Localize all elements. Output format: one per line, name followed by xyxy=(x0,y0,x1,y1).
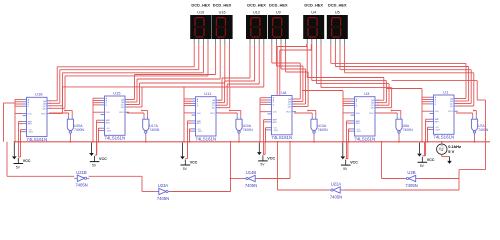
svg-text:7405N: 7405N xyxy=(245,183,257,188)
svg-text:~CLR: ~CLR xyxy=(106,130,112,132)
svg-text:~CLR: ~CLR xyxy=(435,129,441,131)
svg-text:U12: U12 xyxy=(253,11,260,15)
svg-text:7405N: 7405N xyxy=(75,183,87,188)
svg-text:U18: U18 xyxy=(35,92,43,97)
svg-text:CLK: CLK xyxy=(28,114,33,116)
svg-text:U21B: U21B xyxy=(76,170,87,175)
svg-text:7400N: 7400N xyxy=(243,128,254,132)
svg-text:U14B: U14B xyxy=(246,170,257,175)
svg-text:5V: 5V xyxy=(183,167,188,171)
svg-text:7405N: 7405N xyxy=(157,196,169,201)
svg-text:7400N: 7400N xyxy=(318,128,329,132)
svg-text:U9: U9 xyxy=(276,11,281,15)
svg-text:7400N: 7400N xyxy=(403,128,414,132)
svg-text:U11: U11 xyxy=(204,91,212,96)
svg-text:5V: 5V xyxy=(420,164,425,168)
svg-text:RCO: RCO xyxy=(369,113,374,115)
svg-text:5 V: 5 V xyxy=(448,149,454,154)
svg-text:5V: 5V xyxy=(343,167,348,171)
svg-text:CLK: CLK xyxy=(197,113,202,115)
svg-text:U3: U3 xyxy=(364,91,370,96)
svg-text:74LS161N: 74LS161N xyxy=(271,135,292,140)
svg-text:7405N: 7405N xyxy=(405,183,417,188)
svg-text:VCC: VCC xyxy=(427,158,435,162)
svg-text:RCO: RCO xyxy=(448,111,453,113)
svg-text:74LS161N: 74LS161N xyxy=(195,136,216,141)
svg-text:U5: U5 xyxy=(335,11,340,15)
svg-text:RCO: RCO xyxy=(119,112,124,114)
svg-text:~CLR: ~CLR xyxy=(197,131,203,133)
svg-text:RCO: RCO xyxy=(41,114,46,116)
svg-text:U23A: U23A xyxy=(158,183,169,188)
svg-text:DCD_HEX: DCD_HEX xyxy=(304,2,323,7)
svg-text:DCD_HEX: DCD_HEX xyxy=(269,2,288,7)
svg-text:~CLR: ~CLR xyxy=(28,132,34,134)
svg-text:CLK: CLK xyxy=(435,111,440,113)
svg-text:U15: U15 xyxy=(113,90,121,95)
svg-text:U4: U4 xyxy=(311,11,316,15)
svg-text:U1: U1 xyxy=(443,89,449,94)
svg-text:U2B: U2B xyxy=(407,170,415,175)
svg-text:VCC: VCC xyxy=(267,157,275,161)
svg-text:VCC: VCC xyxy=(99,157,107,161)
svg-text:CLK: CLK xyxy=(106,112,111,114)
svg-text:DCD_HEX: DCD_HEX xyxy=(328,2,347,7)
svg-text:CLK: CLK xyxy=(273,112,278,114)
svg-text:DCD_HEX: DCD_HEX xyxy=(247,2,266,7)
svg-text:RCO: RCO xyxy=(210,113,215,115)
svg-text:~CLR: ~CLR xyxy=(356,131,362,133)
svg-text:~CLR: ~CLR xyxy=(273,130,279,132)
svg-text:VCC: VCC xyxy=(190,161,198,165)
svg-text:5V: 5V xyxy=(92,163,97,167)
svg-text:7400N: 7400N xyxy=(478,128,489,132)
svg-text:CLK: CLK xyxy=(356,113,361,115)
svg-text:DCD_HEX: DCD_HEX xyxy=(191,2,210,7)
svg-text:U16: U16 xyxy=(219,11,226,15)
svg-text:74LS161N: 74LS161N xyxy=(354,136,375,141)
svg-text:VCC: VCC xyxy=(23,159,31,163)
svg-text:5V: 5V xyxy=(260,163,265,167)
svg-text:7400N: 7400N xyxy=(149,128,160,132)
svg-text:VCC: VCC xyxy=(350,161,358,165)
svg-text:7400N: 7400N xyxy=(74,128,85,132)
svg-text:U19: U19 xyxy=(197,11,204,15)
svg-text:U8: U8 xyxy=(281,90,287,95)
svg-text:5V: 5V xyxy=(16,165,21,169)
svg-text:RCO: RCO xyxy=(286,112,291,114)
svg-text:DCD_HEX: DCD_HEX xyxy=(213,2,232,7)
svg-text:7405N: 7405N xyxy=(330,194,342,199)
svg-text:U22A: U22A xyxy=(331,182,342,187)
svg-text:74LS161N: 74LS161N xyxy=(104,136,125,141)
svg-text:74LS161N: 74LS161N xyxy=(433,135,454,140)
